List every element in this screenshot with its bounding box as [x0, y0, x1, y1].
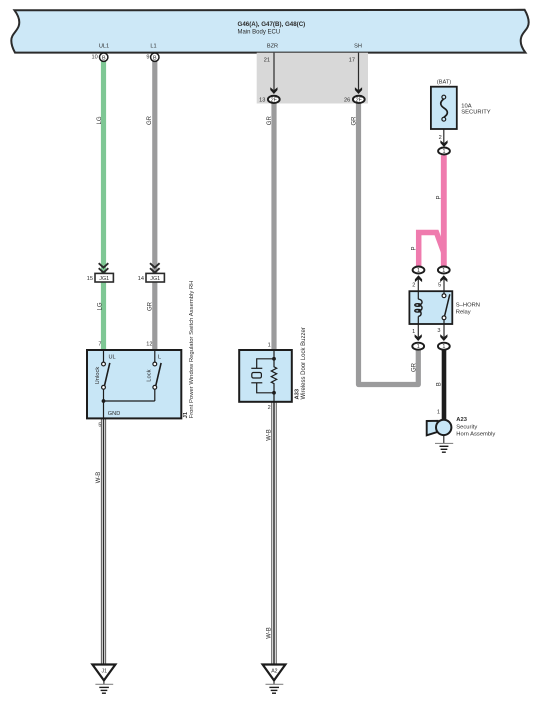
svg-text:W-B: W-B [267, 429, 273, 441]
svg-text:Front Power Window Regulator S: Front Power Window Regulator Switch Asse… [189, 281, 195, 419]
svg-text:GR: GR [147, 115, 153, 125]
svg-text:JG1: JG1 [99, 276, 109, 282]
svg-text:B: B [102, 55, 106, 61]
svg-text:Security: Security [456, 424, 477, 430]
svg-text:1: 1 [417, 344, 420, 350]
svg-text:14: 14 [138, 276, 144, 282]
svg-text:(BAT): (BAT) [437, 79, 451, 85]
svg-text:W-B: W-B [96, 472, 102, 484]
svg-text:GR: GR [352, 116, 358, 126]
svg-text:JG1: JG1 [150, 276, 160, 282]
svg-text:SECURITY: SECURITY [461, 110, 490, 116]
svg-text:GR: GR [267, 116, 273, 126]
svg-text:1: 1 [442, 268, 445, 274]
svg-text:2F: 2F [271, 97, 277, 103]
svg-text:1: 1 [443, 149, 446, 155]
svg-text:13: 13 [259, 97, 265, 103]
svg-text:LG: LG [97, 116, 103, 124]
svg-text:17: 17 [349, 57, 355, 63]
svg-text:L1: L1 [150, 44, 156, 50]
svg-text:Wireless Door Lock Buzzer: Wireless Door Lock Buzzer [301, 327, 307, 399]
svg-text:UL1: UL1 [99, 44, 109, 50]
svg-text:2: 2 [412, 283, 415, 289]
svg-text:1: 1 [412, 329, 415, 335]
svg-text:15: 15 [87, 276, 93, 282]
svg-text:P: P [436, 195, 442, 199]
svg-text:BZR: BZR [267, 44, 278, 50]
svg-text:B: B [153, 55, 157, 61]
svg-text:5: 5 [438, 283, 441, 289]
svg-text:5: 5 [98, 423, 101, 429]
svg-text:1: 1 [268, 342, 271, 348]
svg-text:1: 1 [442, 344, 445, 350]
svg-text:J1: J1 [102, 669, 108, 675]
svg-text:Main Body ECU: Main Body ECU [238, 29, 281, 35]
svg-text:1: 1 [437, 409, 440, 415]
svg-text:G46(A), G47(B), G48(C): G46(A), G47(B), G48(C) [238, 21, 306, 28]
svg-text:2: 2 [268, 405, 271, 411]
svg-text:10: 10 [91, 54, 97, 60]
svg-text:W-B: W-B [266, 627, 272, 639]
svg-text:SH: SH [354, 44, 362, 50]
svg-text:2: 2 [439, 135, 442, 141]
svg-text:21: 21 [264, 57, 270, 63]
svg-text:7: 7 [98, 342, 101, 348]
svg-text:A33: A33 [294, 388, 300, 399]
svg-text:S–HORN: S–HORN [456, 303, 480, 309]
svg-text:3: 3 [437, 328, 440, 334]
svg-text:LG: LG [97, 302, 103, 310]
svg-text:A2: A2 [271, 669, 277, 675]
svg-text:Lock: Lock [146, 369, 152, 381]
svg-text:GND: GND [108, 411, 120, 417]
svg-text:UL: UL [109, 354, 116, 360]
svg-text:Horn Assembly: Horn Assembly [456, 431, 495, 437]
svg-text:J1: J1 [183, 411, 189, 418]
svg-text:P: P [411, 246, 417, 250]
svg-text:GR: GR [412, 362, 418, 372]
svg-text:L: L [158, 354, 161, 360]
svg-text:1: 1 [417, 268, 420, 274]
svg-text:26: 26 [344, 97, 350, 103]
svg-text:9: 9 [146, 54, 149, 60]
svg-text:Unlock: Unlock [95, 367, 101, 385]
svg-text:Relay: Relay [456, 310, 471, 316]
svg-text:GR: GR [147, 301, 153, 311]
svg-text:2F: 2F [356, 97, 362, 103]
svg-text:12: 12 [146, 342, 152, 348]
svg-text:B: B [436, 382, 442, 386]
svg-text:A23: A23 [456, 417, 467, 423]
